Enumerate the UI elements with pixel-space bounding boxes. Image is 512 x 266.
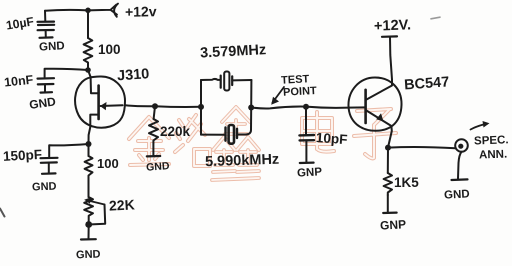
node top rail junction xyxy=(85,8,91,14)
drain lead inside xyxy=(91,77,99,93)
wire to C2 xyxy=(45,69,88,77)
svg-text:GND: GND xyxy=(28,94,57,112)
node source junction xyxy=(86,141,92,147)
ground for C4 xyxy=(297,163,323,180)
node gate junction xyxy=(152,103,158,109)
svg-text:+12V.: +12V. xyxy=(374,17,412,34)
supply terminal +12V bar xyxy=(382,35,397,38)
base bar xyxy=(364,90,367,123)
wire top rail from C1 to +12V connector xyxy=(45,9,102,12)
node test point junction xyxy=(303,104,309,110)
ground for R3 xyxy=(146,156,171,174)
svg-text:100: 100 xyxy=(97,156,119,171)
node wiper junction xyxy=(85,221,92,228)
svg-text:+12v: +12v xyxy=(125,3,157,20)
source lead inside xyxy=(89,115,99,144)
arrow to spectrum analyser xyxy=(471,124,488,130)
gate arrow xyxy=(101,104,123,107)
connector J1 output jack xyxy=(455,139,468,178)
crystal X2 5.990kMHz xyxy=(201,125,245,144)
resistor R4 1K5 xyxy=(384,148,392,212)
svg-text:GND: GND xyxy=(76,248,101,261)
svg-text:220k: 220k xyxy=(160,124,191,139)
svg-text:10nF: 10nF xyxy=(3,73,34,90)
电 xyxy=(302,112,334,152)
svg-text:J310: J310 xyxy=(117,66,150,84)
crystal X1 3.579MHz xyxy=(201,72,251,91)
body circle xyxy=(75,76,125,127)
洛 xyxy=(175,115,210,166)
node crystal right junction xyxy=(248,105,254,111)
resistor R2 100 xyxy=(85,144,93,197)
test point arrow xyxy=(273,87,285,103)
collector lead xyxy=(366,80,392,101)
svg-text:GND: GND xyxy=(39,40,65,53)
svg-text:ANN.: ANN. xyxy=(479,149,508,162)
capacitor C2 10nF xyxy=(38,78,55,92)
wiper loop to bottom xyxy=(89,205,106,225)
node crystal left junction xyxy=(198,104,204,110)
resistor R3 220K xyxy=(149,106,158,155)
svg-text:10pF: 10pF xyxy=(315,130,347,147)
stray mark left edge xyxy=(0,209,5,217)
node drain/bypass junction xyxy=(85,67,91,73)
ground for jack xyxy=(444,179,470,201)
svg-text:5.990kMHz: 5.990kMHz xyxy=(205,152,280,171)
wire gate to crystals xyxy=(125,105,201,107)
svg-text:150pF: 150pF xyxy=(3,147,43,164)
emitter lead xyxy=(366,110,392,126)
ground for C2 xyxy=(28,92,57,112)
transistor Q2 BC547 xyxy=(348,78,401,131)
wire collector to +12V xyxy=(390,38,392,80)
svg-text:3.579MHz: 3.579MHz xyxy=(200,42,267,61)
svg-text:GND: GND xyxy=(32,181,57,194)
wire emitter to node xyxy=(388,126,392,148)
ground for C3 xyxy=(32,173,57,193)
stray mark top right xyxy=(431,17,440,19)
wire from node to drain xyxy=(88,70,91,77)
ground for VR1 xyxy=(76,239,101,261)
transistor Q1 J310 JFET xyxy=(75,70,125,144)
svg-text:22K: 22K xyxy=(109,196,135,213)
potentiometer VR1 22K xyxy=(84,197,105,225)
svg-text:100: 100 xyxy=(98,42,121,57)
capacitor C1 10uF xyxy=(38,11,55,37)
子 xyxy=(354,109,396,159)
svg-text:GNP: GNP xyxy=(297,166,323,179)
svg-text:GND: GND xyxy=(146,160,171,174)
svg-text:GNP: GNP xyxy=(380,217,407,232)
wiper arrow xyxy=(88,201,105,205)
ground for C1 xyxy=(39,37,65,53)
鑫 xyxy=(212,107,259,180)
svg-text:BC547: BC547 xyxy=(404,74,450,93)
channel bar xyxy=(97,86,100,120)
capacitor C4 10pF xyxy=(299,107,314,162)
ground for R4 xyxy=(380,213,407,233)
capacitor C3 150pF xyxy=(41,158,58,173)
svg-text:POINT: POINT xyxy=(283,85,317,99)
wire crystals to Q2 base xyxy=(251,107,365,109)
svg-text:SPEC.: SPEC. xyxy=(474,134,509,147)
watermark text 金洛鑫电子 xyxy=(129,107,396,180)
金 xyxy=(129,117,169,165)
svg-text:GND: GND xyxy=(444,188,470,201)
wire source node to C3 xyxy=(49,144,88,157)
resistor R1 100 xyxy=(84,10,93,70)
wire to ground xyxy=(88,225,90,239)
svg-text:10µF: 10µF xyxy=(5,14,35,32)
wire node to output jack xyxy=(388,147,456,148)
wire crystal left vertical xyxy=(200,80,202,135)
svg-text:1K5: 1K5 xyxy=(394,175,419,190)
connector +12V plug symbol xyxy=(102,4,118,17)
body circle xyxy=(348,78,401,131)
node emitter junction xyxy=(385,145,391,151)
wire crystal right vertical xyxy=(245,80,251,135)
